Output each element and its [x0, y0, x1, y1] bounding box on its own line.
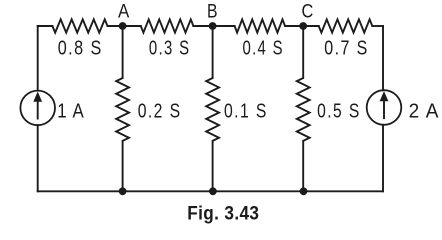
- svg-text:1 A: 1 A: [57, 100, 85, 122]
- wire resistor0.3-to-nodeB-to-resistor0.4: [193, 25, 234, 27]
- wire left branch lower: [37, 125, 39, 191]
- svg-text:0.2 S: 0.2 S: [138, 101, 182, 123]
- wire right branch upper: [382, 26, 384, 90]
- current source I2 (2 A): [367, 90, 402, 125]
- wire resistor0.8-to-nodeA-to-resistor0.3: [108, 25, 141, 27]
- current source I1 (1 A): [20, 91, 55, 126]
- svg-text:0.7 S: 0.7 S: [324, 38, 369, 60]
- svg-text:0.8 S: 0.8 S: [58, 38, 103, 60]
- svg-text:Fig. 3.43: Fig. 3.43: [187, 203, 259, 224]
- resistor 0.1 S (branch B): [206, 78, 219, 141]
- node A junction dot: [119, 22, 127, 30]
- wire bottom rail: [38, 190, 383, 192]
- wire node C down to resistor 0.5 S: [302, 26, 304, 78]
- svg-text:C: C: [302, 1, 314, 22]
- node B junction dot: [209, 22, 217, 30]
- resistor 0.2 S (branch A): [116, 78, 129, 141]
- bottom junction dot under C: [300, 187, 308, 195]
- svg-text:B: B: [207, 1, 218, 22]
- resistor 0.7 S (top right): [319, 19, 373, 32]
- wire node A down to resistor 0.2 S: [122, 26, 124, 78]
- svg-text:0.3 S: 0.3 S: [149, 38, 191, 60]
- wire resistor 0.2 S to bottom rail: [122, 141, 124, 191]
- svg-text:0.1 S: 0.1 S: [224, 101, 268, 123]
- wire resistor0.4-to-nodeC-to-resistor0.7: [285, 25, 319, 27]
- resistor 0.8 S (top left): [52, 19, 107, 32]
- svg-text:0.5 S: 0.5 S: [317, 101, 361, 123]
- wire top-right segment: [372, 25, 383, 27]
- wire resistor 0.1 S to bottom rail: [212, 141, 214, 191]
- wire resistor 0.5 S to bottom rail: [302, 141, 304, 191]
- resistor 0.3 S (top, A-B): [141, 19, 194, 32]
- resistor 0.5 S (branch C): [297, 78, 310, 141]
- svg-text:2 A: 2 A: [409, 100, 440, 122]
- wire top-left segment: [38, 25, 53, 27]
- wire left branch upper: [37, 26, 39, 91]
- node C junction dot: [299, 22, 307, 30]
- svg-text:0.4 S: 0.4 S: [242, 38, 284, 60]
- bottom junction dot under B: [209, 187, 217, 195]
- wire node B down to resistor 0.1 S: [212, 26, 214, 78]
- svg-text:A: A: [118, 1, 129, 22]
- wire right branch lower: [382, 125, 384, 192]
- bottom junction dot under A: [119, 187, 127, 195]
- resistor 0.4 S (top, B-C): [235, 19, 285, 32]
